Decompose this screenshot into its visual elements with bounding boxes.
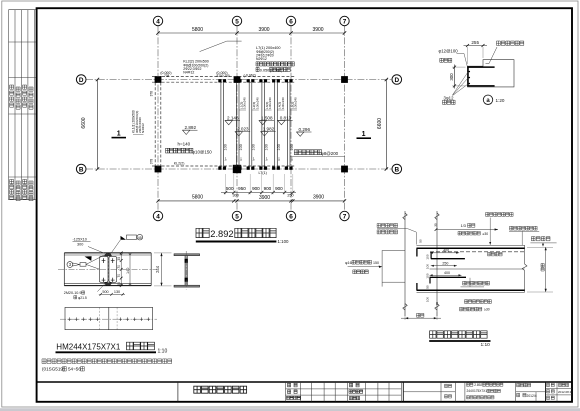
column 4/D — [155, 76, 162, 83]
svg-text:N4Φ12: N4Φ12 — [183, 71, 194, 75]
svg-text:b=: b= — [264, 157, 268, 161]
svg-text:100x240: 100x240 — [281, 97, 285, 109]
leader from KL2 label — [200, 41, 242, 52]
svg-text:100: 100 — [239, 144, 243, 150]
label wall slot — [377, 224, 416, 245]
elevation mark 1.508 (bay5-2) — [259, 115, 274, 125]
label bottom second-row bars — [461, 278, 490, 287]
beam end line with break — [522, 245, 527, 292]
svg-text:3900: 3900 — [258, 27, 269, 33]
grid line 5 vertical — [236, 26, 238, 212]
HM bottom dims 500 130 — [99, 290, 125, 296]
svg-text:400: 400 — [444, 271, 450, 275]
svg-text:100: 100 — [252, 144, 256, 150]
detail a dim 255 — [464, 40, 488, 64]
svg-text:φ8@200: φ8@200 — [321, 151, 339, 156]
svg-text:6600: 6600 — [377, 118, 383, 129]
HM bolts — [102, 258, 115, 282]
grid bubble D — [392, 75, 402, 85]
institute name — [194, 386, 247, 393]
svg-text:1: 1 — [117, 131, 121, 138]
svg-text:35: 35 — [117, 257, 121, 261]
bottom second-row bar — [430, 277, 466, 283]
wall slot left line — [381, 250, 383, 286]
svg-text:h=140: h=140 — [178, 142, 191, 147]
svg-text:≥30: ≥30 — [484, 308, 490, 312]
grid bubble 6 bottom — [286, 211, 295, 220]
svg-text:1:10: 1:10 — [158, 349, 168, 355]
note anchor bars into beam — [256, 62, 294, 73]
label dashed negative bar — [488, 252, 503, 256]
title block institute cell — [177, 382, 179, 402]
joist L5 — [272, 79, 280, 170]
svg-text:45: 45 — [138, 236, 142, 240]
beam top line — [417, 244, 525, 246]
svg-text:5800: 5800 — [192, 194, 203, 200]
svg-text:b=: b= — [252, 157, 256, 161]
grid line B horizontal — [86, 168, 392, 170]
svg-text:400: 400 — [443, 248, 449, 252]
beam KL1 along grid 4 (dashed) — [154, 83, 156, 167]
svg-text:250: 250 — [287, 194, 293, 198]
svg-text:4: 4 — [156, 18, 160, 25]
svg-text:54~56: 54~56 — [68, 367, 81, 372]
detail a thick bottom edge — [467, 85, 494, 87]
HM splice plate left — [99, 256, 108, 282]
title block labels col B — [349, 383, 363, 399]
svg-text:150: 150 — [373, 261, 379, 265]
HM beam elevation outline — [64, 253, 151, 286]
HM beam centerline — [58, 268, 157, 270]
column 7/B — [341, 166, 348, 173]
joist L4 — [259, 79, 267, 170]
grid bubble 4 bottom — [153, 211, 162, 220]
svg-text:-125X10: -125X10 — [73, 238, 87, 242]
svg-text:255: 255 — [471, 40, 479, 45]
svg-text:2.023: 2.023 — [237, 127, 249, 132]
grid bubble 6 top — [286, 16, 295, 25]
break symbol top — [435, 213, 439, 220]
svg-text:35: 35 — [435, 302, 439, 306]
dim column width — [401, 303, 441, 320]
elevation mark 2.892 (bay4) — [183, 125, 198, 135]
HM weld mark circled 3 — [67, 253, 108, 269]
HM I-beam section — [174, 251, 200, 290]
HM plate label -125X10 — [73, 238, 106, 254]
svg-text:0.050: 0.050 — [260, 68, 270, 72]
svg-text:6: 6 — [289, 18, 293, 25]
section mark 1 right — [357, 131, 372, 138]
svg-text:250: 250 — [442, 261, 448, 265]
grid bubble 4 top — [153, 16, 162, 25]
signature strip rotated captions row 5 — [10, 180, 33, 201]
level note (0.000) at grid5 — [216, 71, 230, 78]
break symbol bottom — [435, 304, 439, 311]
grid bubble 5 top — [232, 16, 241, 25]
detail a: column/beam anchor section outline — [468, 60, 515, 87]
svg-text:φ21.5: φ21.5 — [78, 296, 87, 300]
svg-text:(01SG519): (01SG519) — [42, 367, 65, 372]
note spacing>=30 bottom — [460, 307, 490, 311]
grid line D horizontal — [86, 79, 392, 81]
svg-text:100: 100 — [277, 144, 281, 150]
top second-row bar — [431, 252, 465, 259]
detail a thick left edge — [467, 67, 469, 87]
detail a label: anchor bars into column — [486, 41, 524, 64]
HM notes line 2 — [42, 367, 84, 372]
svg-text:5: 5 — [235, 213, 239, 220]
svg-text:300: 300 — [77, 243, 83, 247]
svg-text:100: 100 — [290, 144, 294, 150]
grid bubble B — [392, 164, 402, 174]
joist L3 — [247, 79, 255, 170]
right dim beam height — [527, 247, 553, 292]
svg-text:2.892: 2.892 — [474, 383, 482, 387]
svg-text:100: 100 — [425, 273, 429, 278]
elevation mark 2.146 (bay5-1) — [225, 115, 240, 125]
svg-text:(-0.962): (-0.962) — [244, 74, 256, 78]
svg-text:D: D — [394, 77, 399, 84]
svg-text:300: 300 — [449, 73, 454, 81]
svg-text:7: 7 — [343, 213, 347, 220]
dim 1/3 span — [435, 224, 498, 231]
svg-text:900: 900 — [264, 186, 272, 191]
title block top line — [37, 381, 572, 383]
svg-text:3900: 3900 — [312, 27, 323, 33]
grid bubble 7 top — [340, 16, 349, 25]
beam KL2 along D (dashed) — [152, 76, 295, 78]
level note (0.000) at grid4 — [160, 71, 171, 78]
svg-text:4700 700: 4700 700 — [216, 74, 230, 78]
top dimension line — [156, 31, 346, 34]
svg-text:100x240: 100x240 — [268, 97, 272, 109]
svg-text:35: 35 — [434, 223, 438, 227]
joist L1 — [218, 79, 226, 170]
HM splice plate right — [109, 256, 117, 282]
scan edge shadow bottom — [0, 408, 580, 411]
svg-text:φ16: φ16 — [345, 261, 352, 265]
HM splice gap line — [107, 254, 109, 285]
detail a thick top edge — [467, 66, 494, 68]
svg-text:1:10: 1:10 — [481, 342, 491, 348]
detail a dim 300 — [449, 65, 465, 89]
svg-text:70: 70 — [117, 265, 121, 269]
bottom dim row small (500/950/900x3) — [221, 174, 296, 194]
label phi16@150 planted — [345, 260, 382, 273]
svg-text:1: 1 — [362, 131, 366, 138]
HM overall dim 244 — [154, 253, 172, 286]
grid bubble 5 bottom — [232, 211, 241, 220]
beam label L7(1) 200x400 block — [256, 46, 281, 61]
rotated mini dims left — [419, 223, 439, 305]
svg-text:1.982: 1.982 — [263, 127, 275, 132]
connection column left face line — [404, 211, 406, 316]
svg-text:140: 140 — [126, 268, 130, 274]
svg-text:KL2(2): KL2(2) — [174, 162, 185, 166]
svg-text:(-0.962): (-0.962) — [270, 69, 282, 73]
svg-text:2.892: 2.892 — [210, 229, 233, 239]
column 4/B — [155, 166, 162, 173]
joist L6 rotated label — [290, 97, 297, 110]
svg-text:50: 50 — [425, 285, 429, 289]
connection title — [429, 331, 490, 348]
svg-text:b=: b= — [223, 157, 227, 161]
svg-text:2.892: 2.892 — [185, 125, 197, 130]
svg-text:N4Φ12: N4Φ12 — [141, 123, 145, 133]
svg-text:φ10@150: φ10@150 — [192, 149, 212, 154]
grid bubble D — [76, 75, 86, 85]
column 5/B — [233, 165, 241, 173]
label drawing type cells — [445, 384, 452, 398]
label bottom first-row bars — [465, 300, 492, 304]
HM site weld dome bottom — [105, 283, 112, 286]
HM weld flag 45 — [111, 234, 143, 254]
svg-text:2012/4: 2012/4 — [527, 394, 537, 398]
svg-text:D: D — [79, 77, 84, 84]
grid bubble 7 bottom — [340, 211, 349, 220]
HM bolt spec label — [64, 284, 105, 300]
joist L5 rotated label — [278, 97, 285, 110]
elevation mark 1.982 (bay5-5) — [261, 127, 276, 137]
joist L4 rotated label — [265, 97, 272, 110]
svg-text:6: 6 — [289, 213, 293, 220]
beam label KL1 rotated at grid 4 — [132, 110, 146, 134]
svg-text:3φ12: 3φ12 — [444, 95, 455, 100]
svg-text:N2Φ12: N2Φ12 — [256, 57, 267, 61]
svg-text:35: 35 — [117, 282, 121, 286]
HM notes line 1 — [42, 359, 172, 364]
svg-text:100x240: 100x240 — [255, 97, 259, 109]
svg-text:5: 5 — [235, 18, 239, 25]
connection column right face line — [436, 211, 438, 316]
svg-text:50: 50 — [419, 239, 423, 243]
svg-text:6600: 6600 — [81, 117, 87, 128]
elevation mark 2.023 (bay5-4) — [235, 127, 250, 137]
svg-text:4: 4 — [156, 213, 160, 220]
svg-text:2M20-10.9: 2M20-10.9 — [64, 291, 82, 295]
label top second-row bars — [486, 213, 514, 245]
svg-text:3900: 3900 — [259, 195, 270, 201]
svg-text:1:100: 1:100 — [278, 239, 290, 244]
detail a rebar dots — [469, 71, 471, 85]
plan title: elevation 2.892 beam plan — [196, 228, 276, 239]
svg-text:70: 70 — [117, 274, 121, 278]
note spacing>=30 top — [458, 231, 488, 235]
beam bottom line — [417, 291, 525, 293]
wall slot top line — [382, 250, 405, 252]
svg-text:900: 900 — [252, 186, 260, 191]
svg-text:2012.08.30: 2012.08.30 — [558, 390, 573, 394]
grid bubble B — [76, 164, 86, 174]
bottom first-row bar — [417, 283, 525, 290]
svg-text:b=: b= — [239, 157, 243, 161]
slab note h=140 — [166, 142, 213, 155]
right dim line 6600 — [385, 78, 388, 171]
column 5/D — [234, 76, 241, 83]
top negative bar dashed — [430, 251, 525, 253]
svg-text:2.146: 2.146 — [227, 115, 239, 120]
svg-text:244: 244 — [155, 265, 160, 273]
grid line 6 vertical — [290, 26, 292, 212]
grid line 7 vertical — [344, 26, 346, 212]
svg-text:738: 738 — [164, 74, 170, 78]
svg-text:B: B — [79, 166, 84, 173]
label beam top level — [530, 237, 556, 247]
svg-text:≥30: ≥30 — [483, 232, 489, 236]
dim 250 — [431, 261, 457, 266]
svg-text:B: B — [394, 166, 399, 173]
label top first-row bars — [509, 226, 539, 245]
beam KL2 along D lower edge — [152, 81, 295, 83]
dim 400 top — [430, 248, 459, 253]
plan title underline — [196, 241, 277, 243]
title block grid — [286, 382, 404, 402]
bottom dim row main — [156, 199, 346, 202]
svg-text:950: 950 — [238, 186, 246, 191]
HM site weld dome top — [105, 253, 112, 256]
svg-text:HM244X175X7X1: HM244X175X7X1 — [56, 342, 121, 351]
detail a label 3phi12 (planted bars) — [443, 72, 469, 104]
dim 400 lower — [430, 271, 462, 276]
beam mid line — [430, 268, 525, 270]
svg-text:100: 100 — [425, 254, 429, 259]
svg-text:1:20: 1:20 — [496, 98, 505, 103]
detail a label: phi12@100 both-end weld — [439, 48, 468, 66]
signature strip rotated captions row 3 — [10, 85, 33, 109]
svg-text:LT(1): LT(1) — [259, 171, 267, 175]
svg-text:b=: b= — [277, 157, 281, 161]
joist L2 — [234, 79, 242, 170]
svg-text:130: 130 — [114, 290, 120, 294]
beam KL2 along B (dashed) — [152, 165, 295, 167]
svg-text:1.508: 1.508 — [261, 115, 273, 120]
svg-text:244X175X7X1: 244X175X7X1 — [467, 389, 488, 393]
right-most name/date cells — [547, 383, 574, 399]
svg-text:5800: 5800 — [192, 27, 203, 33]
wall slot bottom line — [382, 281, 405, 283]
slab note right bay — [290, 150, 345, 157]
svg-text:100: 100 — [425, 297, 429, 302]
elevation mark 0.296 (bay6) — [297, 127, 312, 137]
grid line 4 vertical — [157, 26, 159, 212]
beam label KL2(2) 200x500 block — [183, 60, 209, 75]
svg-text:7: 7 — [343, 18, 347, 25]
beam KL1 along grid 4 right edge — [160, 83, 162, 167]
HM plan view — [60, 307, 157, 329]
joist L3 rotated label — [252, 97, 259, 110]
top first-row bar — [417, 248, 525, 256]
svg-text:100x240: 100x240 — [294, 97, 298, 109]
svg-text:100: 100 — [425, 264, 429, 269]
signature strip table — [9, 10, 36, 200]
svg-text:0.813: 0.813 — [280, 115, 292, 120]
section mark 1 left — [112, 131, 127, 138]
HM right dim stack 35/70/70/35 — [117, 252, 122, 288]
svg-text:500: 500 — [226, 186, 234, 191]
svg-text:100: 100 — [223, 144, 227, 150]
column 7/D — [341, 76, 348, 83]
svg-text:φ12@100: φ12@100 — [439, 48, 459, 53]
svg-text:b=: b= — [290, 157, 294, 161]
HM right dim 140 — [126, 253, 131, 286]
drawing content three lines — [467, 383, 503, 399]
joist L2 rotated label — [239, 97, 246, 110]
svg-text:0.296: 0.296 — [299, 127, 311, 132]
svg-text:378: 378 — [150, 91, 154, 97]
svg-text:900: 900 — [275, 186, 283, 191]
svg-text:100x240: 100x240 — [243, 97, 247, 109]
svg-text:378: 378 — [150, 159, 154, 165]
elevation mark 0.813 (bay5-3) — [278, 115, 293, 125]
left dim line 6600 — [96, 78, 99, 171]
svg-text:300: 300 — [233, 194, 239, 198]
svg-text:500: 500 — [102, 290, 108, 294]
detail a bubble — [483, 95, 505, 104]
title block labels col A — [287, 383, 301, 399]
title block right grid — [403, 382, 572, 402]
svg-text:1/3: 1/3 — [461, 224, 466, 228]
joist L6 — [285, 79, 293, 170]
HM title — [56, 342, 168, 354]
svg-text:100: 100 — [264, 144, 268, 150]
svg-text:3900: 3900 — [313, 194, 324, 200]
label project number — [517, 383, 537, 398]
